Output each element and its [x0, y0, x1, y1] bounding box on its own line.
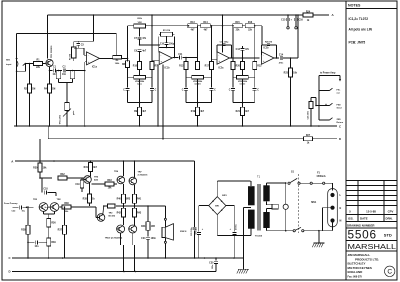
capacitor C26 [195, 228, 204, 258]
fx bracket [318, 76, 320, 121]
capacitor C19 [75, 178, 83, 192]
address line 1 [348, 253, 371, 257]
wire drop x93.5 [93, 14, 95, 41]
svg-text:4700u: 4700u [235, 224, 238, 230]
svg-text:R23: R23 [284, 72, 289, 74]
junction dots bus [16, 125, 320, 127]
resistor R4 [44, 70, 55, 126]
svg-text:C: C [339, 124, 341, 128]
wire primary top [267, 183, 286, 185]
resistor R24 [303, 11, 313, 22]
svg-text:R20: R20 [236, 66, 241, 68]
wire R1 to TR1 [43, 63, 46, 65]
switch S1 pole2 [293, 227, 304, 231]
svg-text:2x MJ3001: 2x MJ3001 [138, 175, 149, 177]
svg-text:ZED: ZED [337, 119, 342, 121]
svg-text:R42: R42 [117, 212, 122, 215]
address line 4 [348, 266, 372, 270]
feedback loop IC1a [74, 41, 94, 61]
capacitor C17 feedback [265, 41, 272, 45]
svg-text:25W 8: 25W 8 [180, 231, 187, 233]
svg-text:D: D [339, 137, 341, 141]
wire D to label [313, 137, 342, 141]
resistor R17 [205, 25, 214, 70]
svg-text:R24: R24 [306, 11, 311, 14]
resistor R8 [122, 61, 130, 70]
svg-text:1500mA: 1500mA [316, 175, 325, 178]
svg-text:out: out [337, 91, 341, 94]
svg-text:100p: 100p [169, 43, 175, 45]
resistor R11 feedback [159, 30, 175, 36]
svg-text:1M: 1M [32, 88, 35, 90]
note line 2 [349, 27, 373, 31]
resistor R32 [39, 174, 84, 180]
svg-text:C18: C18 [43, 189, 48, 191]
resistor R39 lower [47, 238, 57, 258]
wire bridge bottom [217, 215, 251, 236]
svg-text:1M: 1M [52, 88, 55, 90]
capacitor C3 feedback [74, 44, 85, 49]
svg-text:C: C [387, 269, 392, 276]
svg-text:E: E [340, 206, 342, 210]
wire tone junction [139, 44, 160, 46]
ground bus C top [14, 124, 341, 128]
resistor R5b [59, 70, 75, 83]
chassis ground main [237, 258, 249, 274]
wire bridge top [217, 181, 250, 197]
svg-text:R16: R16 [248, 22, 253, 24]
lower resistor R43 [132, 206, 142, 225]
speaker LS1 [162, 206, 187, 258]
wire drop x222.5 [222, 14, 224, 52]
svg-text:10R: 10R [151, 226, 156, 228]
wire riser x197 [196, 26, 200, 70]
issue header row [348, 217, 393, 221]
svg-text:C14: C14 [279, 53, 284, 56]
svg-text:to Power Amp: to Power Amp [320, 72, 336, 75]
wire drop x116 [115, 33, 117, 55]
svg-text:100n: 100n [151, 238, 157, 240]
svg-text:C15: C15 [281, 20, 286, 22]
bus dots bottom [27, 257, 235, 259]
svg-text:-: - [160, 53, 161, 57]
wire TR1 source down [50, 67, 53, 71]
svg-text:BC182: BC182 [109, 215, 116, 217]
jack FX drive [319, 103, 342, 109]
svg-text:R22: R22 [257, 66, 262, 68]
wire IC1a minus [78, 48, 86, 55]
svg-text:BR1: BR1 [222, 195, 227, 197]
wire secondary top [250, 181, 252, 186]
wire center tap [244, 208, 252, 259]
title block table [346, 181, 397, 252]
svg-text:IC1,2= TL072: IC1,2= TL072 [349, 17, 369, 21]
capacitor C11 [178, 54, 183, 59]
svg-text:IC2a: IC2a [219, 68, 225, 70]
wire C11 right [182, 57, 197, 59]
svg-text:470n: 470n [279, 62, 284, 65]
svg-text:C19: C19 [75, 184, 80, 186]
feedback loop IC2a [217, 45, 232, 59]
transistor TR5 [84, 176, 99, 184]
capacitor C10 feedback [160, 36, 175, 48]
svg-text:R38: R38 [64, 203, 69, 205]
svg-text:+: + [88, 60, 90, 64]
resistor R33 [91, 180, 117, 189]
feedback loop IC2b [262, 45, 278, 59]
op-amp IC2b [262, 48, 275, 65]
switch S1 [285, 170, 300, 184]
wire C1 to C2 [57, 70, 63, 72]
transistor TR1 [46, 45, 53, 67]
wire diff out [47, 206, 52, 208]
resistor R35 [83, 183, 96, 206]
svg-text:input: input [6, 63, 12, 66]
wire long drop x163 [162, 65, 164, 140]
svg-text:MARSHALL: MARSHALL [348, 242, 397, 251]
wire drop x152 [151, 14, 153, 61]
capacitor C13 [236, 46, 250, 58]
emitter resistor R40 [117, 184, 131, 206]
wire C14 right [283, 14, 299, 59]
svg-text:R33: R33 [107, 180, 112, 182]
tone cell VR4 [123, 70, 156, 127]
svg-text:12-5-88: 12-5-88 [366, 209, 376, 213]
capacitor C18 [42, 178, 56, 196]
resistor R6 [113, 55, 122, 64]
resistor R14 [201, 21, 211, 31]
svg-text:R31: R31 [84, 167, 89, 169]
wire mains E [322, 208, 332, 231]
resistor R38h [60, 203, 98, 217]
thermal fuse [267, 201, 279, 212]
transistor TR6 [114, 171, 125, 184]
svg-text:0R3: 0R3 [126, 199, 131, 201]
node A bottom [11, 159, 14, 163]
svg-text:R40: R40 [117, 198, 122, 201]
transistor TR8 [117, 225, 125, 233]
net line D bottom [9, 270, 217, 274]
wire drop x47.5 [47, 15, 49, 59]
notes title [348, 4, 361, 8]
column R15 left [231, 28, 235, 70]
svg-text:ISS.: ISS. [348, 217, 354, 221]
svg-text:R44: R44 [141, 225, 146, 228]
svg-text:C: C [9, 256, 11, 260]
wire IC2a plus [212, 59, 218, 61]
svg-text:R10: R10 [133, 66, 138, 68]
resistor R13 [188, 22, 198, 31]
op-amp IC2a [217, 52, 230, 70]
svg-text:C30: C30 [209, 262, 214, 264]
resistor R36 tail [47, 219, 57, 238]
wire long drop x158 [157, 65, 159, 127]
drawing number label [347, 223, 375, 227]
earth drop [318, 231, 320, 243]
svg-text:R27: R27 [306, 135, 311, 137]
wire R14-R15 [223, 25, 233, 27]
capacitor C20 [308, 98, 319, 127]
transistor TR9 [105, 225, 137, 239]
copyright symbol [385, 266, 395, 276]
capacitor C1 [53, 67, 58, 76]
wire rail left stub [17, 32, 117, 34]
capacitor C14 [279, 53, 284, 64]
svg-text:R11 1M: R11 1M [163, 30, 170, 32]
resistor R15 [232, 22, 242, 31]
output node wire [104, 204, 166, 208]
svg-text:C16: C16 [299, 20, 304, 22]
panel divider [345, 1, 347, 280]
pot VR2 [128, 18, 153, 28]
svg-text:bass: bass [137, 84, 143, 86]
lower resistor R42 [117, 206, 126, 225]
resistor R37 [58, 206, 67, 258]
capacitor C12 feedback [220, 41, 230, 45]
resistor R27 on D [304, 135, 313, 144]
wire R16 right [255, 26, 262, 45]
input jack SK1 [6, 58, 25, 71]
jack FX return [319, 118, 344, 124]
svg-text:treble: treble [240, 83, 247, 86]
svg-text:D: D [9, 270, 11, 274]
svg-text:PCB: JM75: PCB: JM75 [349, 40, 366, 44]
address line 3 [348, 262, 366, 266]
svg-text:R36: R36 [51, 223, 56, 225]
wire mains N [304, 223, 333, 232]
rail drop column R7 [150, 62, 158, 70]
svg-text:NOTES: NOTES [348, 4, 361, 8]
wire rail to node A [313, 14, 329, 16]
wire TR8 TR9 tops [121, 221, 133, 225]
tone cell VR5 [229, 70, 260, 127]
wire outputs down [121, 233, 135, 272]
svg-text:gain: gain [73, 110, 75, 115]
wire row1 bus [152, 25, 189, 27]
capacitor C15 [281, 14, 292, 29]
svg-text:Fax: 908-375: Fax: 908-375 [348, 275, 363, 278]
op-amp IC1a [87, 52, 100, 69]
wire R6 right [122, 58, 129, 60]
capacitor C2 [62, 67, 67, 76]
svg-text:middle: middle [194, 84, 202, 86]
jack FX send [319, 88, 341, 94]
svg-text:R15: R15 [235, 22, 240, 24]
notes box underline [346, 8, 397, 10]
svg-text:10n: 10n [35, 246, 40, 248]
svg-text:R12: R12 [179, 66, 184, 68]
capacitor C16 [294, 14, 304, 29]
svg-text:R17: R17 [205, 66, 210, 68]
resistor R2 [24, 64, 35, 127]
svg-text:-: - [263, 53, 264, 57]
issue row [349, 209, 393, 213]
svg-text:MS1: MS1 [311, 201, 317, 204]
svg-text:DATE: DATE [360, 217, 368, 221]
svg-text:C10: C10 [160, 43, 165, 45]
svg-text:4700u: 4700u [195, 228, 198, 234]
resistor R16 [245, 22, 255, 31]
svg-text:DRN.: DRN. [386, 217, 393, 221]
net line D top [48, 126, 303, 139]
drawing number 5506 [348, 227, 392, 241]
svg-text:-: - [88, 53, 89, 57]
capacitor C7 [134, 28, 147, 45]
svg-text:R5 1M: R5 1M [70, 54, 72, 60]
svg-text:R25 1M: R25 1M [265, 41, 272, 43]
note line 3 [349, 40, 366, 44]
phone line [348, 275, 363, 278]
svg-text:R21: R21 [236, 111, 241, 113]
bridge BR1 [209, 195, 228, 215]
wire IC1b out [172, 57, 178, 59]
wire primary bottom [267, 228, 294, 231]
resistor R3 [56, 70, 60, 83]
svg-text:IC2b: IC2b [264, 48, 270, 50]
svg-text:47n: 47n [142, 37, 147, 40]
svg-text:10n: 10n [62, 74, 67, 76]
svg-text:IC1a: IC1a [92, 67, 98, 69]
op-amp IC1b [159, 52, 172, 70]
svg-text:C20 220n: C20 220n [308, 110, 310, 119]
svg-text:C13: C13 [236, 49, 241, 51]
svg-text:STD: STD [384, 233, 392, 238]
resistor R28 [21, 206, 30, 258]
svg-text:+: + [160, 59, 162, 63]
wire supply rail top [48, 14, 304, 16]
capacitor C9 [134, 49, 147, 61]
svg-text:All pots are LIN: All pots are LIN [349, 27, 373, 31]
emitter resistor R41 [132, 185, 142, 206]
lamp LP1 [283, 182, 288, 231]
svg-text:TX-500: TX-500 [255, 236, 263, 238]
note line 1 [349, 17, 369, 21]
svg-text:C11: C11 [178, 54, 183, 56]
wire drop x123 [123, 160, 125, 176]
svg-text:R35: R35 [83, 198, 88, 200]
capacitor C30 [209, 257, 218, 271]
transistor TR7 [129, 172, 148, 185]
wire bridge left [199, 206, 209, 232]
chassis ground mains [312, 243, 324, 247]
wire VR2 left riser [127, 26, 129, 62]
node A label [332, 13, 335, 17]
mains inlet MS1 [311, 189, 341, 227]
svg-text:R28: R28 [21, 230, 26, 232]
svg-text:R39: R39 [51, 242, 56, 244]
svg-text:ENGLAND: ENGLAND [348, 270, 364, 274]
svg-text:VR1 220k: VR1 220k [59, 114, 61, 124]
svg-text:Send: Send [337, 107, 343, 109]
wire C2 right [66, 62, 87, 126]
svg-text:R43: R43 [137, 212, 142, 215]
zobel R44 [141, 206, 155, 230]
wire IC1a out [100, 57, 113, 59]
svg-text:R37: R37 [58, 230, 63, 232]
svg-text:R41: R41 [137, 198, 142, 201]
svg-text:N: N [340, 219, 342, 223]
resistor R10 [133, 62, 142, 76]
svg-text:C12 100p: C12 100p [220, 41, 230, 43]
svg-text:2x A56: 2x A56 [45, 206, 51, 209]
svg-text:VR4 220k: VR4 220k [135, 80, 145, 83]
resistor R31 [84, 160, 98, 176]
label to power amp [319, 72, 341, 82]
resistor R20 [236, 58, 245, 76]
gain pot VR1 [59, 83, 75, 127]
resistor R5 feedback [70, 47, 76, 60]
svg-text:C24: C24 [141, 237, 146, 240]
svg-text:+: + [218, 59, 220, 63]
wire input to R1 [25, 63, 33, 65]
svg-text:TR1 2N3819: TR1 2N3819 [51, 45, 53, 58]
tone cell VR3 [182, 70, 216, 127]
wire IC2a out [230, 57, 260, 59]
resistor R30 [33, 160, 47, 178]
svg-text:R32: R32 [60, 174, 65, 176]
svg-text:-: - [218, 53, 219, 57]
wire junction x54 [53, 160, 55, 162]
zobel C24 [141, 230, 156, 258]
wire drop x40 from D [39, 139, 41, 161]
svg-text:C25 100n: C25 100n [191, 226, 193, 236]
ground bus C bottom [9, 256, 244, 260]
wire secondary bottom [250, 229, 252, 236]
capacitor C27 [230, 224, 238, 258]
svg-text:R13: R13 [190, 22, 195, 24]
wire R13-R14 [197, 25, 201, 27]
resistor R1 [34, 60, 43, 69]
svg-text:R30: R30 [33, 167, 38, 169]
input cap C22 [4, 202, 34, 212]
svg-text:TR8,9 (2x MJ2955): TR8,9 (2x MJ2955) [105, 237, 123, 239]
transistor TR4 [97, 213, 116, 222]
svg-text:R19: R19 [191, 111, 196, 113]
wire R15-R16 [242, 25, 245, 27]
svg-text:CPV: CPV [388, 209, 394, 213]
svg-text:47n: 47n [245, 48, 250, 51]
wire TR4 up [103, 205, 105, 214]
wire rail A bottom [15, 160, 195, 162]
transformer T1 [248, 175, 270, 238]
transistor TR3 [45, 199, 62, 212]
marshall logo [348, 242, 397, 251]
isolation dashed line [297, 174, 299, 233]
address line 2 [355, 257, 379, 261]
capacitor C23 [27, 240, 47, 248]
wire drop x134 [134, 160, 136, 177]
svg-text:From Preamp: From Preamp [4, 202, 18, 205]
fuse F1 [300, 172, 332, 191]
wire IC1b plus [152, 59, 159, 61]
resistor R12 [179, 58, 188, 70]
svg-text:R14: R14 [203, 21, 208, 24]
address line 5 [348, 270, 364, 274]
wire bridge right [226, 206, 234, 232]
transistor TR2 [33, 199, 48, 212]
column R16 right [253, 28, 263, 70]
svg-text:FSD: FSD [337, 104, 342, 106]
wire R14 right [210, 25, 222, 27]
resistor R23 [284, 58, 298, 126]
wire IC2b out [274, 57, 279, 59]
wire drop x16.5 [16, 33, 18, 126]
capacitor C25 [191, 161, 196, 258]
feedback loop IC1b [159, 36, 175, 58]
diff tail [44, 211, 55, 218]
svg-text:+: + [263, 59, 265, 63]
svg-text:5506: 5506 [348, 227, 377, 241]
